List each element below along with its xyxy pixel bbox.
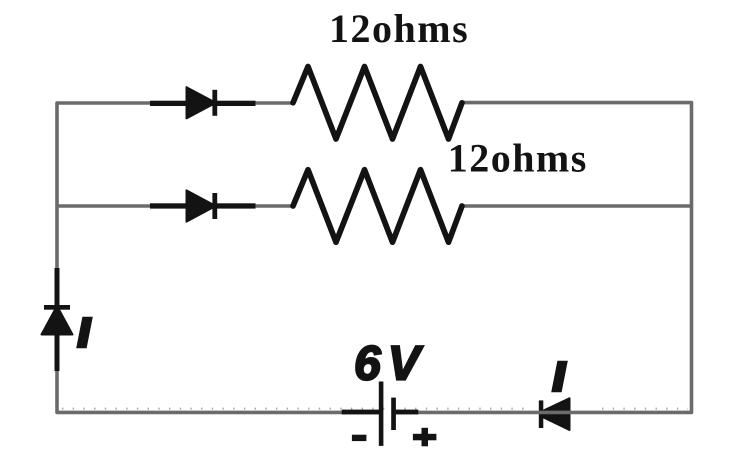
svg-text:12ohms: 12ohms [329,6,469,51]
svg-text:6V: 6V [354,338,427,391]
svg-text:12ohms: 12ohms [448,136,588,181]
